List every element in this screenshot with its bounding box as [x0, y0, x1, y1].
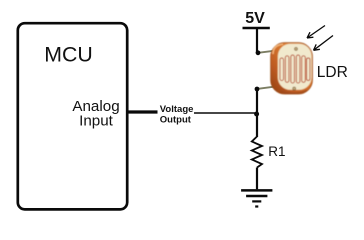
- svg-text:MCU: MCU: [44, 43, 93, 67]
- svg-text:LDR: LDR: [317, 64, 348, 81]
- svg-text:Input: Input: [79, 113, 114, 130]
- svg-text:Voltage: Voltage: [160, 104, 194, 115]
- svg-text:5V: 5V: [245, 10, 265, 27]
- svg-text:Output: Output: [160, 115, 192, 126]
- svg-text:R1: R1: [268, 144, 285, 159]
